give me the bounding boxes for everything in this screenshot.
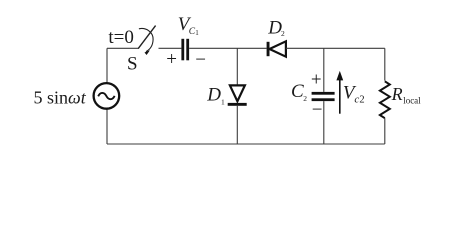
wire right branch bottom	[384, 118, 386, 144]
svg-text:−: −	[195, 50, 206, 71]
wire C2 to bottom	[323, 101, 325, 144]
switch closing arc arrow	[139, 29, 153, 52]
switch S blade	[138, 26, 155, 49]
voltage arrow V_c2	[339, 79, 341, 114]
wire C1 to D2	[189, 47, 267, 49]
svg-text:1: 1	[221, 97, 225, 106]
svg-text:+: +	[166, 49, 177, 70]
wire bottom	[107, 143, 385, 145]
source V1 (5 sin wt)	[94, 83, 120, 109]
wire D1 to bottom	[236, 106, 238, 144]
diode D2 triangle (pointing left)	[270, 41, 286, 56]
wire right branch top	[384, 48, 386, 80]
wire left vertical (source branch)	[106, 48, 108, 83]
svg-text:local: local	[403, 96, 421, 106]
capacitor C2 plates	[312, 92, 335, 95]
svg-text:C: C	[291, 81, 304, 102]
svg-text:2: 2	[359, 95, 364, 106]
node D1 branch top	[236, 48, 238, 85]
wire switch to C1	[159, 47, 182, 49]
wire top-left to switch	[107, 47, 139, 49]
svg-text:D: D	[206, 84, 221, 105]
capacitor C1 plates	[181, 39, 184, 61]
svg-text:−: −	[312, 99, 323, 120]
node C2 branch top	[323, 48, 325, 92]
svg-text:5 sinωt: 5 sinωt	[34, 87, 87, 107]
svg-text:R: R	[391, 84, 403, 104]
svg-text:+: +	[311, 70, 322, 91]
diode D2 cathode bar	[267, 42, 270, 56]
wire D2 to right corner	[286, 47, 385, 49]
svg-text:2: 2	[303, 94, 307, 103]
svg-text:t=0: t=0	[108, 27, 133, 48]
svg-text:S: S	[127, 54, 138, 75]
resistor R zigzag	[380, 81, 390, 118]
svg-text:D: D	[267, 17, 282, 38]
svg-text:1: 1	[195, 29, 199, 37]
diode D1 (pointing down)	[230, 85, 245, 101]
svg-text:2: 2	[281, 29, 285, 38]
